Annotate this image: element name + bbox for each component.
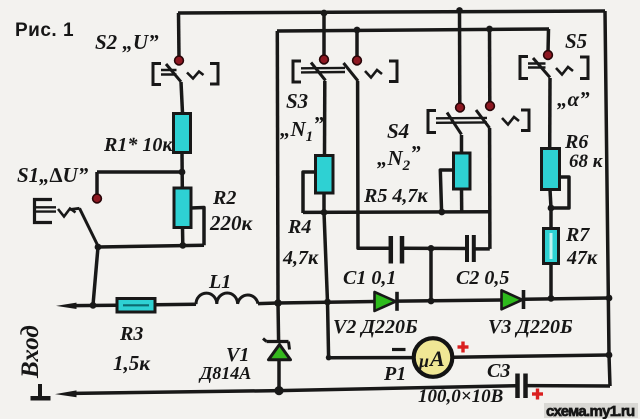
- switch S3: [293, 61, 397, 82]
- node right rail meter wire: [606, 352, 613, 359]
- svg-text:R4: R4: [287, 216, 311, 238]
- svg-text:R5 4,7к: R5 4,7к: [363, 185, 428, 207]
- plus mark C3: [532, 389, 543, 400]
- node R3 wire junction: [90, 302, 97, 309]
- node S3 top rail: [321, 10, 328, 17]
- wire V1 anode to bottom: [277, 360, 281, 391]
- wire S2 arm to R1: [181, 82, 183, 113]
- switch S5: [520, 57, 588, 79]
- wire top rail: [178, 11, 605, 13]
- capacitor C2: [467, 235, 474, 262]
- node right rail V3 wire: [606, 295, 613, 302]
- svg-text:100,0×10В: 100,0×10В: [418, 386, 503, 407]
- wire tap bus y212: [303, 210, 490, 214]
- wire V2 node down to meter wire: [328, 302, 329, 358]
- node R5 tap bus junction: [438, 209, 445, 216]
- watermark: [544, 403, 638, 419]
- svg-text:„α”: „α”: [557, 87, 590, 111]
- wire R6R7 node to R7: [549, 208, 553, 229]
- wire R6 bottom: [550, 190, 551, 209]
- wire S2 drop from top rail: [177, 13, 181, 58]
- wire R2 tap: [191, 208, 205, 246]
- wire R4 tap: [303, 172, 316, 213]
- node S3 second rail: [354, 27, 361, 34]
- svg-text:S4: S4: [387, 119, 409, 143]
- svg-text:Р1: Р1: [383, 363, 406, 385]
- wire R2 bottom: [181, 228, 185, 246]
- node S4 second rail: [486, 26, 493, 33]
- wire C3 right to rail corner: [528, 384, 611, 388]
- switch S4: [428, 110, 529, 135]
- node meter wire corner: [326, 355, 332, 361]
- svg-text:220к: 220к: [209, 211, 254, 235]
- node left rail V2 wire junction: [274, 299, 282, 307]
- svg-text:Рис. 1: Рис. 1: [15, 20, 74, 41]
- wire R2 bottom node horizontal: [98, 245, 204, 247]
- resistor R5: [454, 153, 471, 189]
- wire C1C2 node down to V2V3 wire: [429, 248, 433, 301]
- wire S4 right arm down to C2 wire: [488, 128, 492, 249]
- wire meter left: [329, 356, 413, 360]
- svg-text:μ: μ: [418, 351, 429, 371]
- arrow input upper: [56, 303, 77, 309]
- wire S4 right contact drop: [488, 29, 492, 104]
- node S4 top rail: [456, 7, 463, 14]
- inductor L1: [196, 293, 258, 304]
- wire S5 arm to R6: [548, 78, 552, 149]
- node V1 bottom wire junction: [274, 386, 283, 395]
- contact dot S4 left: [456, 103, 465, 112]
- wire R5 tap: [440, 170, 453, 212]
- wire L1 to left rail: [258, 301, 278, 305]
- node R2 bottom junction: [179, 242, 186, 249]
- resistor R3: [117, 299, 155, 313]
- svg-text:L1: L1: [208, 271, 231, 293]
- wire V2V3 left segment: [278, 302, 375, 304]
- node R6 R7 junction: [548, 205, 555, 212]
- contact dot S3 left: [320, 55, 329, 64]
- node R4 V2 wire junction: [324, 299, 331, 306]
- node R4 tap bus junction: [321, 209, 328, 216]
- wire C2 right to S4 vertical: [475, 247, 490, 251]
- svg-text:схема.my1.ru: схема.my1.ru: [546, 403, 635, 419]
- resistor R2: [174, 188, 191, 228]
- wire R6 tap: [553, 177, 569, 208]
- svg-text:68 к: 68 к: [569, 151, 604, 172]
- wire right rail: [605, 11, 610, 386]
- diode V3: [502, 290, 524, 309]
- svg-text:R2: R2: [212, 187, 236, 209]
- svg-text:1,5к: 1,5к: [113, 351, 151, 375]
- wire V3 cathode to right rail: [525, 298, 610, 299]
- svg-text:R7: R7: [565, 224, 590, 246]
- diode V2: [375, 292, 398, 311]
- capacitor C1: [391, 236, 402, 264]
- svg-text:47к: 47к: [566, 247, 598, 269]
- wire R4 node down to V2 wire: [324, 212, 328, 302]
- switch S2: [153, 64, 218, 85]
- meter P1: [392, 338, 469, 377]
- contact dot S1: [93, 194, 102, 203]
- resistor R7: [544, 229, 559, 264]
- node S1 bottom junction: [95, 244, 102, 251]
- wire R5 bottom: [460, 189, 464, 212]
- wire S1 fixed contact drop: [95, 172, 99, 196]
- wire R7 bottom: [549, 264, 553, 299]
- contact dot S4 right: [486, 102, 495, 111]
- svg-text:Вход: Вход: [17, 325, 44, 379]
- contact dot S3 right: [353, 56, 362, 65]
- svg-text:Д814А: Д814А: [198, 363, 251, 383]
- svg-text:4,7к: 4,7к: [282, 247, 319, 269]
- svg-text:С3: С3: [487, 360, 510, 382]
- svg-text:С2 0,5: С2 0,5: [456, 267, 509, 289]
- svg-text:С1 0,1: С1 0,1: [343, 267, 396, 289]
- wire S4 left contact drop: [458, 10, 462, 105]
- svg-text:S5: S5: [565, 29, 587, 53]
- wire S3 right contact drop: [355, 30, 359, 58]
- wire node R1R2 to S1: [97, 170, 182, 174]
- wire bottom input to C3: [75, 386, 516, 394]
- wire V1 cathode up: [276, 303, 280, 342]
- wire S3 left contact drop: [322, 13, 326, 57]
- svg-text:R3: R3: [119, 323, 143, 345]
- wire S3 right arm down to C1: [358, 81, 389, 248]
- svg-text:V3 Д220Б: V3 Д220Б: [488, 316, 573, 338]
- wire R4 bottom: [322, 193, 326, 213]
- switch S1: [35, 200, 99, 247]
- resistor R1: [174, 114, 191, 153]
- wire S1 bottom to R3 wire: [93, 247, 98, 305]
- svg-text:R6: R6: [564, 131, 588, 153]
- wire S4 left arm to R5: [460, 135, 464, 153]
- node C1 C2 junction: [428, 245, 435, 252]
- wire R3 to L1: [155, 302, 196, 306]
- capacitor C3: [518, 374, 526, 399]
- wire S5 drop from second rail: [546, 29, 550, 53]
- wire left rail upper: [276, 31, 280, 303]
- arrow input lower: [55, 390, 77, 397]
- node C1C2 V2V3 junction: [428, 298, 435, 305]
- wire C1 to C2: [404, 247, 465, 251]
- svg-text:S3: S3: [286, 89, 308, 113]
- resistor R6: [542, 149, 560, 190]
- svg-text:S1„∆U”: S1„∆U”: [17, 163, 89, 187]
- node R1 R2 junction: [179, 169, 186, 176]
- svg-text:A: A: [428, 346, 445, 371]
- wire input upper to R3: [74, 303, 117, 307]
- node R7 V3 wire junction: [548, 295, 555, 302]
- contact dot S2: [175, 56, 184, 65]
- wire second rail: [277, 29, 549, 31]
- wire meter right: [454, 355, 610, 357]
- resistor R4: [316, 156, 334, 194]
- wire S3 left arm to R4: [323, 81, 327, 156]
- svg-text:V2 Д220Б: V2 Д220Б: [333, 316, 418, 338]
- svg-text:R1* 10к: R1* 10к: [103, 134, 173, 156]
- wire R1 to R2: [180, 153, 184, 189]
- ground terminal: [31, 384, 51, 398]
- wire V2 cathode to C1C2 node: [398, 300, 502, 301]
- svg-text:S2 „U”: S2 „U”: [95, 30, 159, 54]
- contact dot S5: [544, 51, 553, 60]
- diode V1 zener: [263, 339, 291, 360]
